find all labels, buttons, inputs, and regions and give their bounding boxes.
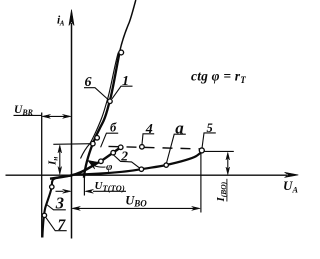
I_H dimension arrows xyxy=(58,145,62,175)
vertical current axis i_A xyxy=(69,10,74,239)
tick below point 5 xyxy=(200,153,202,213)
svg-text:φ: φ xyxy=(106,161,113,173)
label 1 with leader xyxy=(112,74,133,99)
dashed breakover transition line xyxy=(109,146,201,149)
data point on line 2 top xyxy=(118,145,123,150)
data point on reverse curve upper xyxy=(50,185,54,189)
holding current level line I_H xyxy=(53,143,91,146)
data point on line 2 lower xyxy=(99,159,104,164)
label b (Cyrillic) with leader xyxy=(101,121,119,148)
I_(BO) dimension arrows xyxy=(226,152,230,174)
svg-text:4: 4 xyxy=(145,122,153,137)
label 2 with two leaders xyxy=(113,148,140,168)
label a with leader xyxy=(166,118,185,163)
thick rising curve from origin joining line 2 xyxy=(50,147,121,179)
data point at holding level junction xyxy=(91,141,96,146)
svg-text:б: б xyxy=(110,121,117,135)
label 4 with leader xyxy=(142,122,154,146)
reverse blocking and breakdown curve xyxy=(42,176,71,238)
U_BR label with underline xyxy=(14,104,42,117)
label 6 with leader xyxy=(84,75,108,100)
data point on line 2 mid xyxy=(111,150,116,155)
rotated label I_(BO) with underline xyxy=(215,179,228,203)
data point on off-state curve xyxy=(139,167,143,171)
U_T(TO) tick xyxy=(83,176,85,196)
label 5 with leader xyxy=(202,121,216,148)
thin on-state line 6 xyxy=(81,53,119,159)
data point 4 on dashed line xyxy=(140,145,145,150)
reverse branch tick at U_BR xyxy=(41,113,43,238)
thick on-state line 1 xyxy=(84,51,120,178)
U_T(TO) dimension with outside arrows xyxy=(56,189,127,193)
data point on line 1 upper xyxy=(119,50,124,55)
off-state blocking curve xyxy=(74,151,202,175)
label 7 with leader xyxy=(46,217,67,234)
thin upper tail of line 1 xyxy=(120,0,136,51)
svg-text:ctg φ = rT: ctg φ = rT xyxy=(191,69,246,86)
horizontal voltage axis U_A xyxy=(6,172,299,177)
breakover point 5 xyxy=(199,148,204,153)
angle phi arc arrow xyxy=(88,160,106,169)
data point a on off-state curve xyxy=(164,163,168,167)
U_BR dimension arrows xyxy=(42,114,71,118)
label 3 with leader xyxy=(46,193,66,212)
reference line from point 5 xyxy=(204,150,234,152)
U_BO dimension with arrows xyxy=(72,206,200,210)
data point on reverse curve lower xyxy=(42,213,46,217)
data point on line 1 lower xyxy=(95,136,100,141)
data point on line 1 mid xyxy=(108,99,113,104)
